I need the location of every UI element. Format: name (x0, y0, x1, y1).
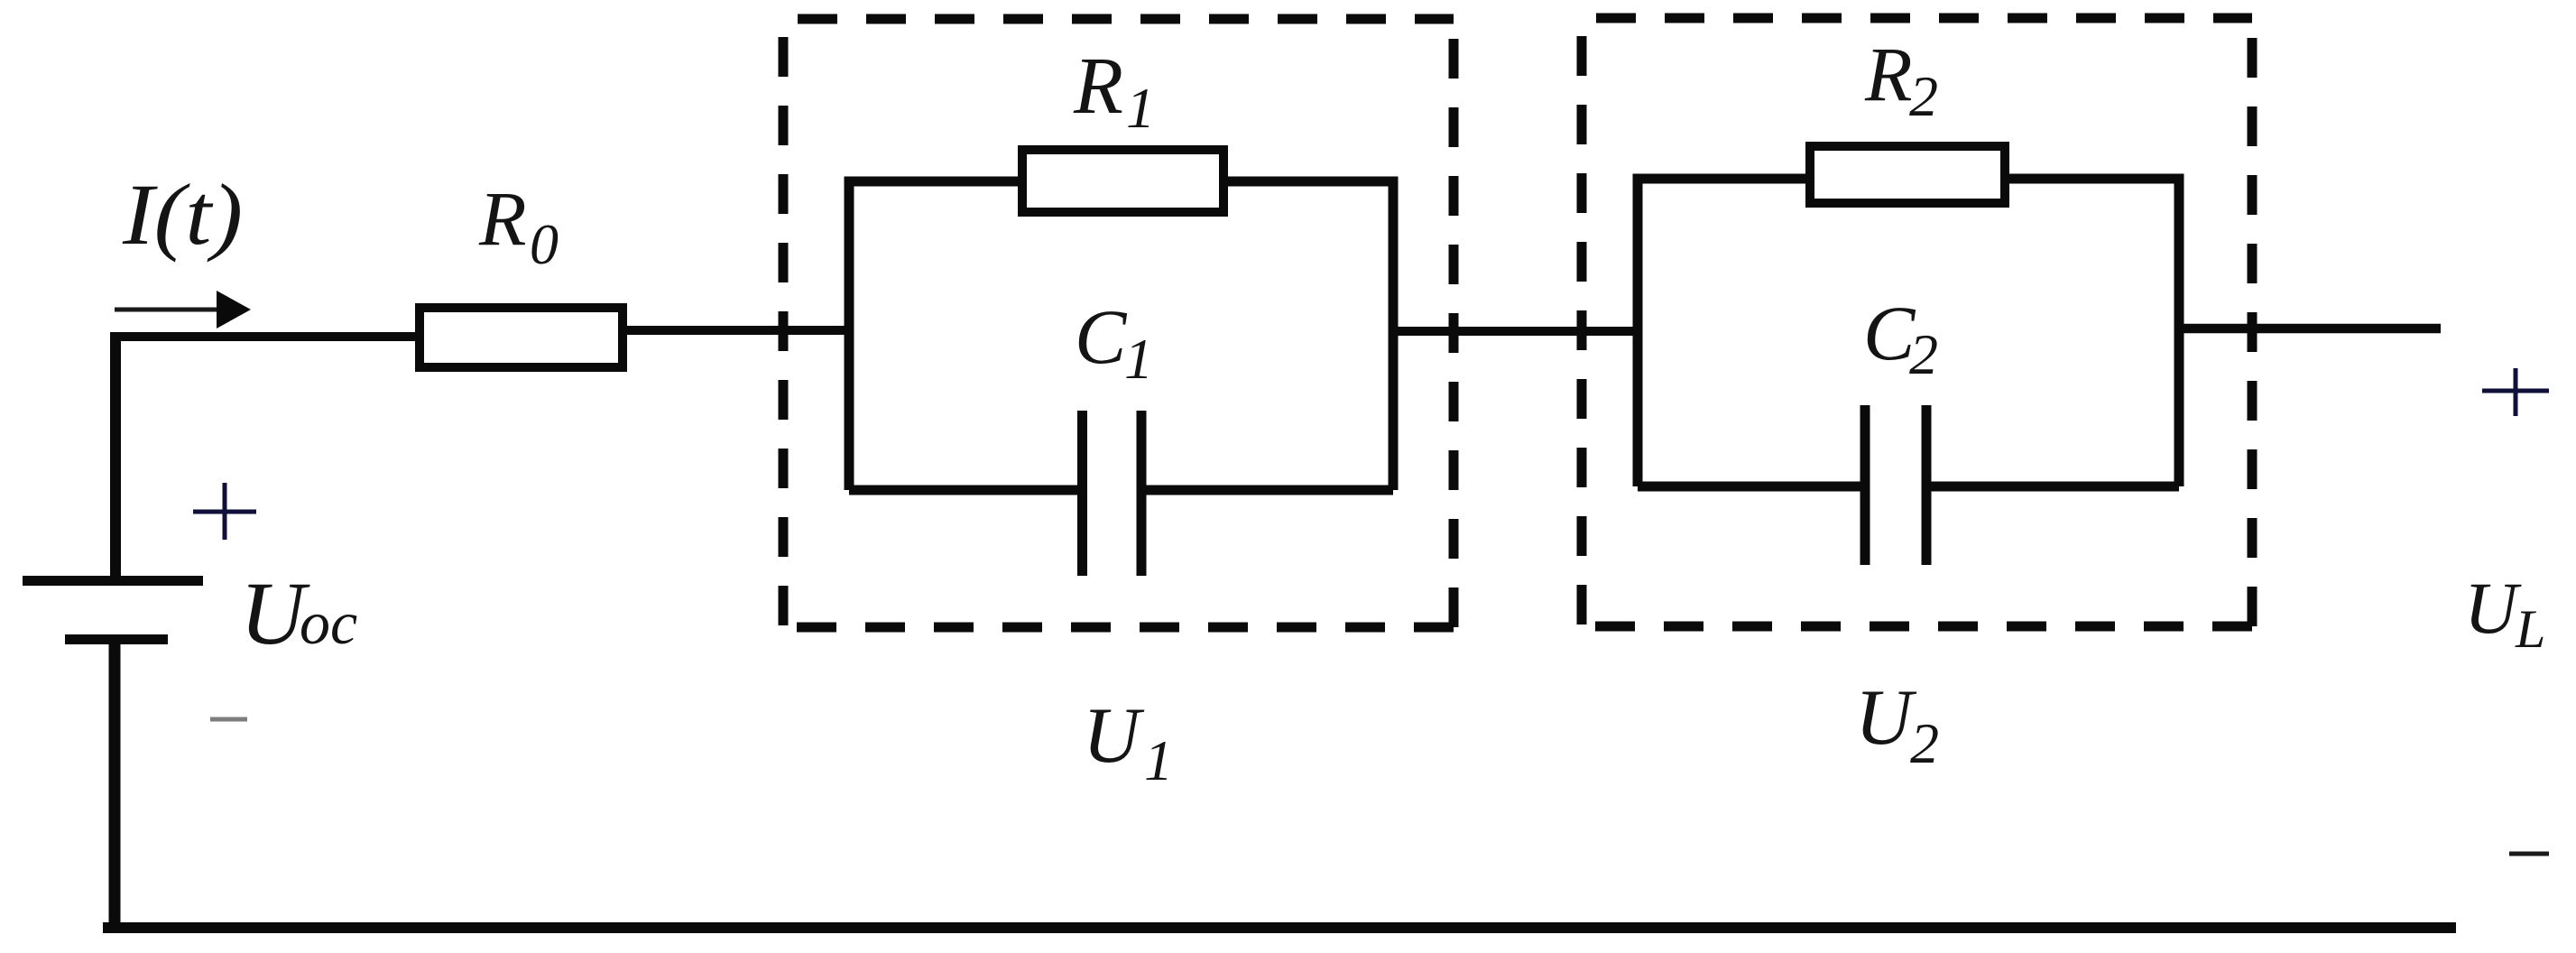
wire battery top vertical (110, 332, 121, 581)
svg-text:2: 2 (1909, 322, 1938, 386)
svg-text:1: 1 (1124, 327, 1153, 391)
svg-text:U: U (1083, 692, 1145, 780)
svg-text:R: R (1073, 42, 1123, 131)
battery plus sign (193, 483, 256, 540)
svg-text:2: 2 (1909, 64, 1938, 128)
svg-text:I(t): I(t) (122, 166, 243, 263)
svg-text:U: U (2464, 567, 2522, 649)
capacitor C1 plates (1077, 411, 1087, 576)
resistor R2 (1810, 146, 2005, 203)
wire loop2 bottom-left (1638, 482, 1865, 492)
resistor R0 (420, 308, 623, 367)
svg-text:oc: oc (300, 588, 357, 657)
dashed box U2 (1582, 18, 2252, 626)
load minus sign (2509, 852, 2549, 856)
RC loop 1 (849, 181, 1393, 490)
svg-text:U: U (1855, 674, 1917, 762)
svg-text:R: R (1864, 31, 1913, 117)
load plus sign (2482, 368, 2549, 416)
svg-text:C: C (1075, 293, 1128, 380)
wire loop2 bottom-right (1922, 482, 2179, 492)
svg-text:L: L (2515, 599, 2545, 659)
battery plate short (-) (65, 634, 168, 644)
wire RC1 to RC2 (1393, 327, 1642, 336)
svg-text:2: 2 (1910, 711, 1939, 775)
wire bottom return (103, 922, 2456, 933)
wire RC2 to load terminal (2179, 324, 2441, 334)
wire R0 to RC1 (627, 326, 854, 335)
battery minus sign (210, 717, 247, 722)
svg-text:R: R (478, 175, 527, 262)
capacitor C2 plates (1860, 405, 1870, 565)
svg-text:1: 1 (1144, 728, 1173, 792)
svg-text:0: 0 (530, 212, 559, 276)
svg-text:1: 1 (1126, 76, 1155, 140)
battery plate long (+) (23, 576, 203, 586)
wire loop1 bottom-left (849, 486, 1082, 495)
RC loop 2 (1638, 179, 2179, 486)
wire loop1 bottom-right (1141, 486, 1393, 495)
wire top-left horizontal (110, 332, 417, 341)
dashed box U1 (783, 19, 1454, 627)
current arrow I(t) (115, 308, 222, 312)
resistor R1 (1022, 150, 1223, 212)
wire battery bottom vertical (109, 640, 121, 928)
